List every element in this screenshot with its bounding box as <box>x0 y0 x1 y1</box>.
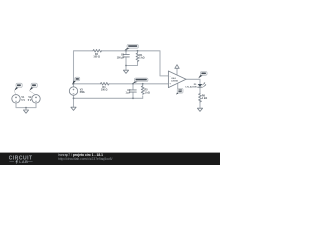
svg-text:100 Ω: 100 Ω <box>101 89 108 92</box>
svg-text:PWL: PWL <box>80 91 86 94</box>
svg-text:OA1: OA1 <box>171 77 176 80</box>
svg-text:1 kΩ: 1 kΩ <box>202 97 207 100</box>
svg-text:http://circuitlab.com/c/z237e9: http://circuitlab.com/c/z237e9aq5ov8/ <box>58 157 113 161</box>
svg-text:LAB: LAB <box>19 159 28 164</box>
svg-text:100 µF: 100 µF <box>117 56 125 59</box>
svg-text:LM741: LM741 <box>171 80 179 83</box>
svg-text:LTL-4231N: LTL-4231N <box>185 85 196 88</box>
svg-text:1 kΩ: 1 kΩ <box>145 91 150 94</box>
svg-text:100 Ω: 100 Ω <box>93 56 100 59</box>
svg-text:1 µF: 1 µF <box>126 92 131 95</box>
svg-text:5 V: 5 V <box>28 99 32 102</box>
svg-text:5 V: 5 V <box>21 99 25 102</box>
svg-text:1 kΩ: 1 kΩ <box>139 57 144 60</box>
